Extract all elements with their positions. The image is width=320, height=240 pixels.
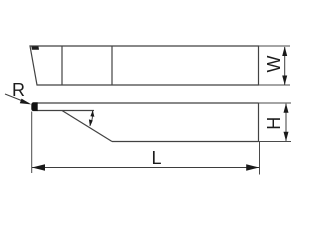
svg-text:R: R [12, 80, 25, 100]
svg-text:H: H [264, 117, 284, 130]
svg-text:L: L [151, 148, 161, 168]
svg-text:W: W [264, 56, 284, 73]
